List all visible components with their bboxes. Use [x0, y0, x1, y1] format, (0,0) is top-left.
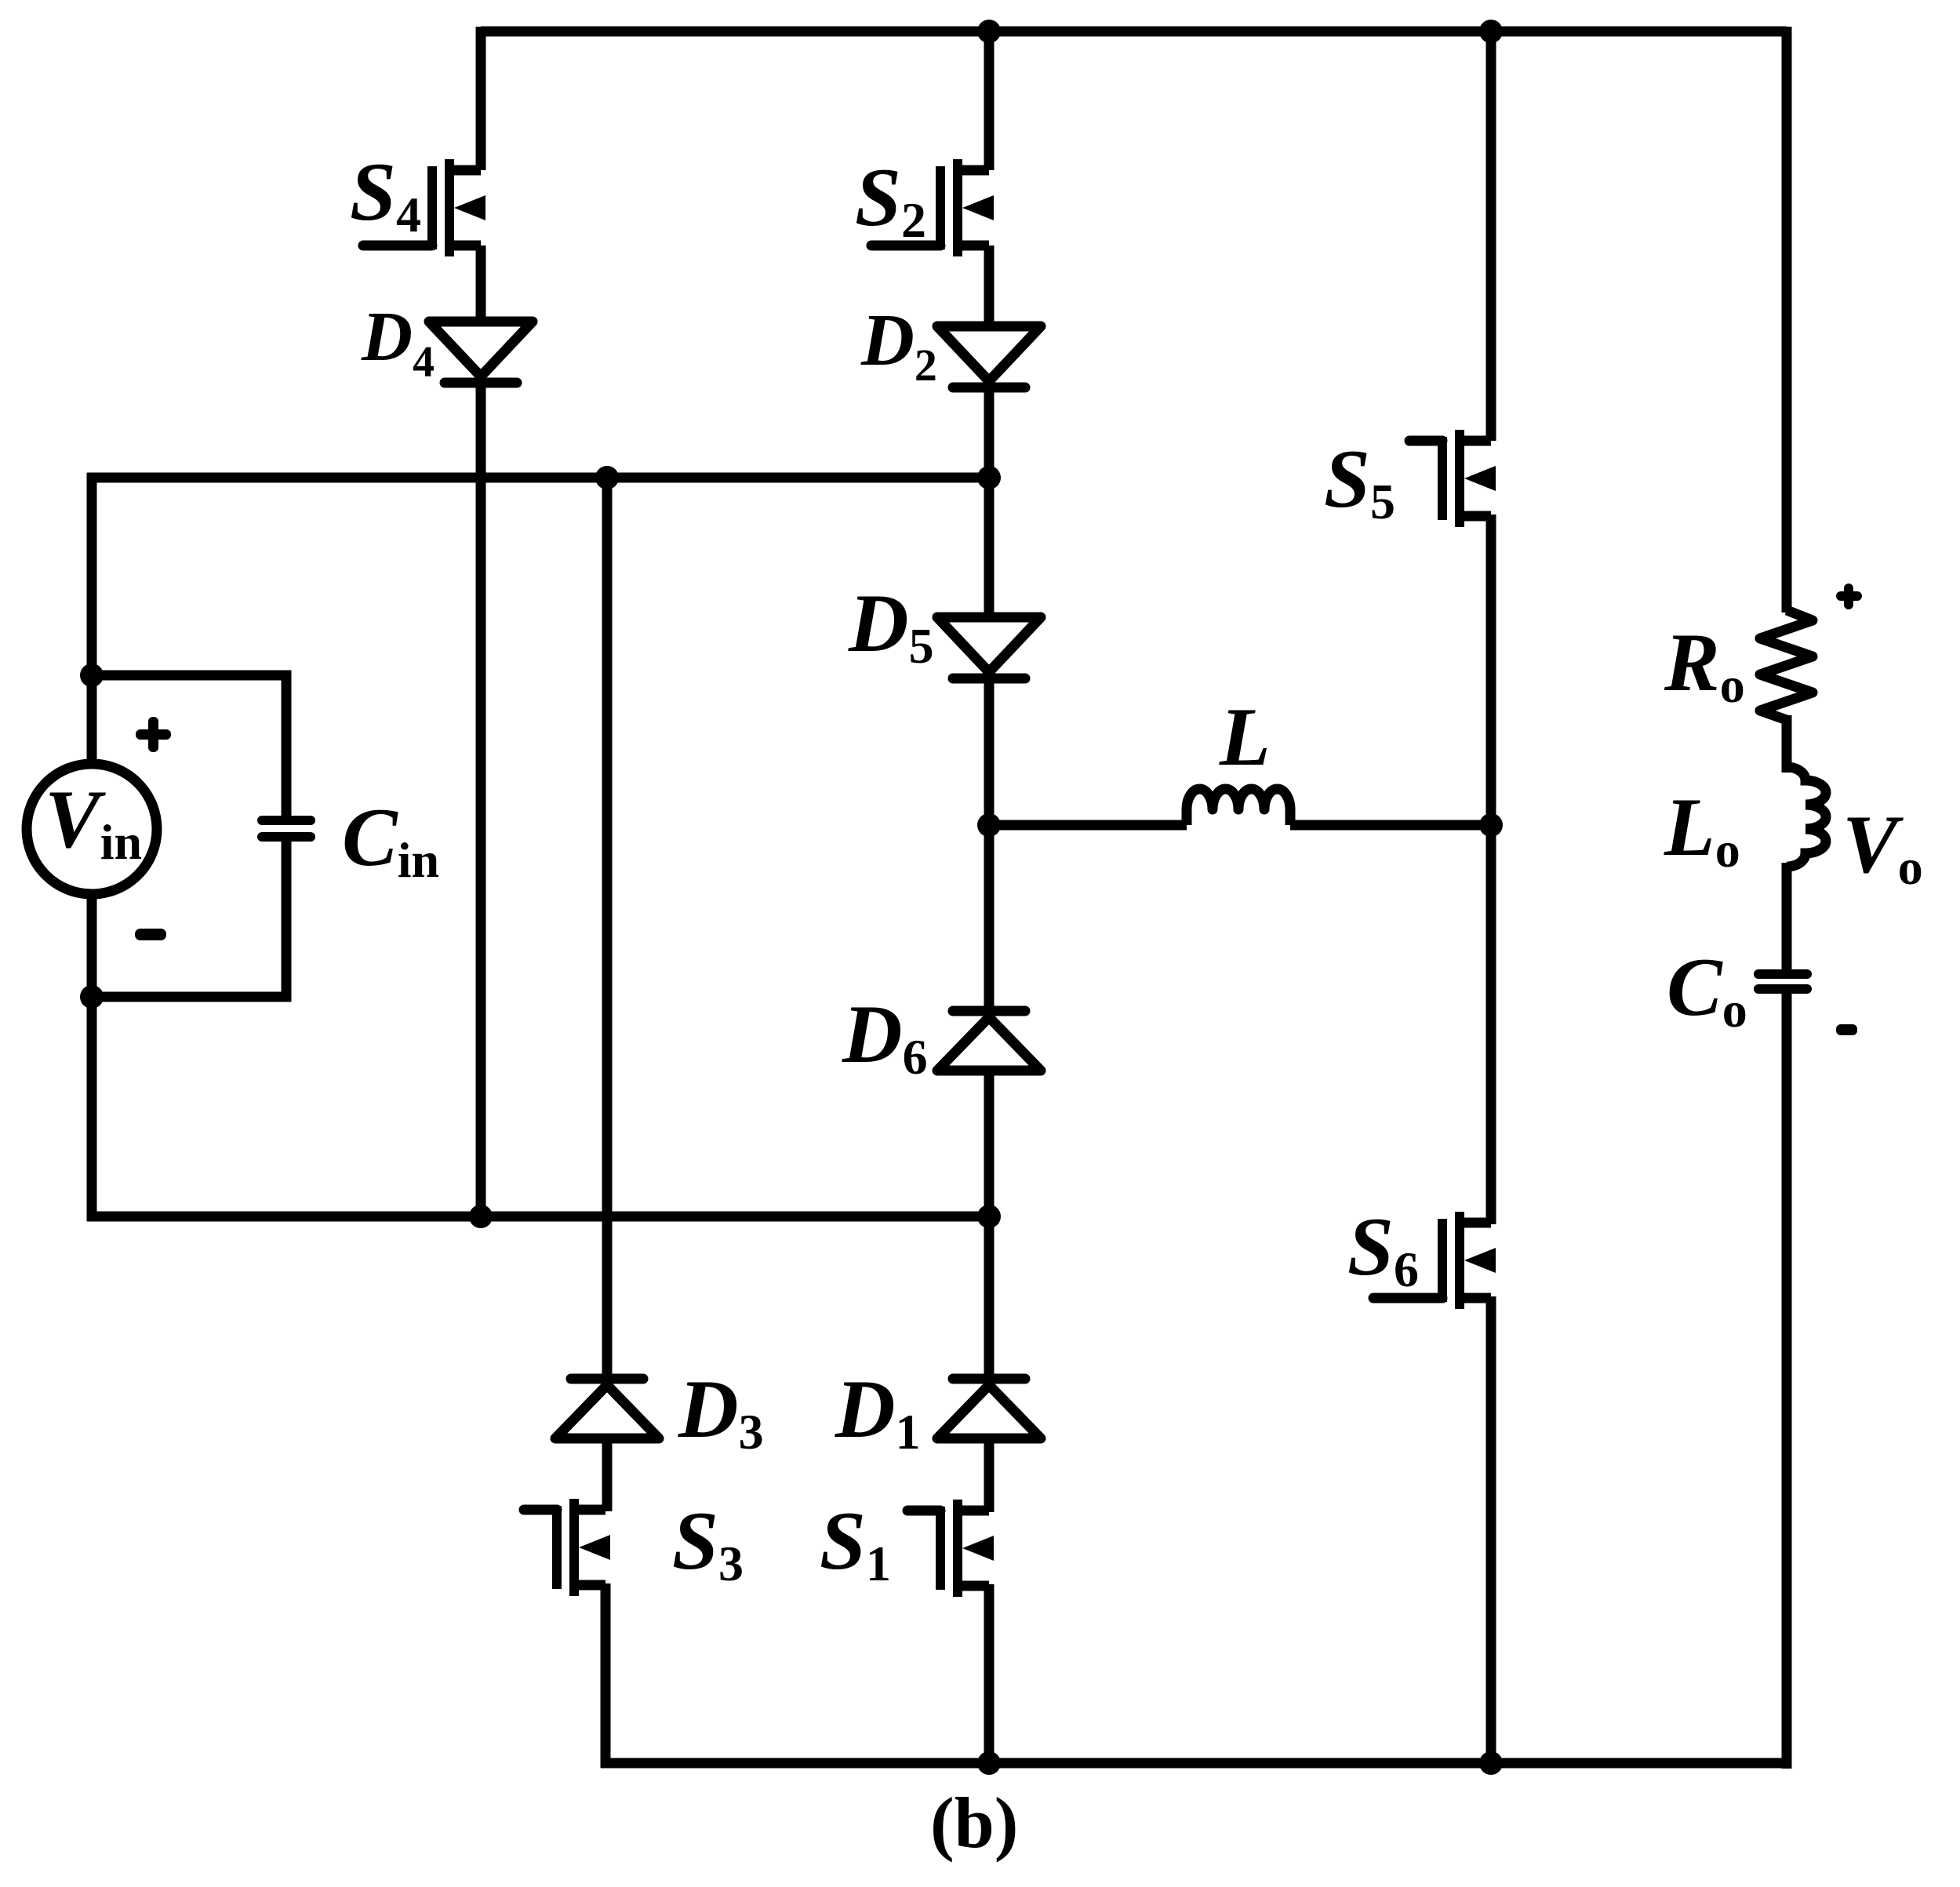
wire D5 cathode to inductor node: [984, 664, 995, 825]
resistor Ro zigzag: [1760, 610, 1813, 720]
diode D5 (pointing down): [937, 617, 1041, 678]
wire S5 source to S6 drain: [1486, 514, 1496, 1224]
inductor L coil: [1187, 789, 1290, 825]
wire left rail upper (mid rail to Vin+): [87, 473, 97, 769]
junction Vin+ / Cin branch: [80, 664, 104, 687]
svg-text:L: L: [1219, 691, 1271, 783]
wire inductor node to D6 cathode: [984, 825, 995, 1016]
wire mid rail node to D5 anode: [984, 478, 995, 619]
wire D4 cathode down to input minus rail: [476, 369, 486, 1216]
junction top rail / S5 column: [1479, 20, 1503, 43]
diode D4 (pointing down): [429, 322, 533, 383]
transistor S6: [1373, 1212, 1496, 1309]
junction bottom rail / S1 source: [977, 1751, 1001, 1775]
junction top rail / S2 column: [977, 20, 1001, 43]
wire top rail: [481, 27, 1787, 37]
wire D2 cathode to mid rail: [984, 373, 995, 478]
transistor S2: [871, 159, 994, 256]
diode D6 (pointing up): [937, 1011, 1041, 1071]
wire S6 source to bottom rail: [1486, 1296, 1496, 1763]
wire S4 drain from top rail: [476, 27, 486, 170]
wire S2 source to D2 anode: [984, 245, 995, 328]
wire inductor L left lead: [989, 820, 1187, 831]
wire D1 anode to S1 drain: [984, 1434, 995, 1512]
transistor S5: [1409, 430, 1496, 527]
wire Ro to Lo lead: [1782, 715, 1792, 773]
inductor Lo coil: [1787, 767, 1826, 867]
capacitor Cin plates: [257, 816, 315, 842]
junction bottom rail / S6 source: [1479, 1751, 1503, 1775]
svg-text:(b): (b): [930, 1783, 1018, 1863]
wire S3 source to bottom rail corner: [601, 1583, 611, 1768]
diode D2 (pointing down): [937, 326, 1041, 387]
junction input minus rail / D4 cathode: [469, 1205, 493, 1228]
wire S2 drain from top rail: [984, 27, 995, 170]
junction mid rail / D2-D5 node: [977, 466, 1001, 489]
wire S5 drain from top rail: [1486, 27, 1496, 441]
minus sign of Vo: [1836, 1024, 1857, 1035]
wire mid rail (Vin+ to D2/D5 node): [87, 473, 989, 483]
junction mid rail / D3 column: [595, 466, 619, 489]
wire right rail upper (top rail to Ro): [1782, 27, 1792, 613]
wire input minus rail: [87, 1212, 989, 1222]
wire S1 source to bottom rail: [984, 1584, 995, 1763]
wire D3 anode to S3 drain: [602, 1434, 613, 1511]
wire bottom rail: [601, 1758, 1787, 1769]
wire D3 column from mid rail: [602, 478, 613, 1383]
junction inductor node at S5/S6 column: [1479, 813, 1503, 837]
wire Lo to Co lead: [1782, 863, 1792, 971]
wire left rail lower (Vin- down): [87, 890, 97, 1221]
wire S4 source to D4 anode: [476, 245, 486, 323]
transistor S3: [524, 1499, 610, 1596]
wire inductor L right lead: [1290, 820, 1491, 831]
diode D3 (pointing up): [555, 1379, 659, 1438]
wire Cin branch bottom: [92, 837, 286, 997]
diode D1 (pointing up): [937, 1379, 1041, 1438]
voltage source Vin circle: [27, 764, 157, 894]
capacitor Co plates: [1754, 969, 1812, 994]
junction inductor node at D5/D6 column: [977, 813, 1001, 837]
plus sign of Vo: [1836, 584, 1862, 609]
wire D6 anode to input minus rail: [984, 1066, 995, 1216]
plus sign of Vin: [136, 717, 171, 752]
minus sign of Vin: [135, 929, 166, 940]
transistor S4: [363, 159, 485, 256]
junction Vin- / Cin branch: [80, 985, 104, 1009]
junction input minus rail / D6 column: [977, 1205, 1001, 1228]
transistor S1: [907, 1500, 994, 1597]
wire Co to bottom rail: [1782, 993, 1792, 1769]
wire input minus rail to D1 cathode: [984, 1216, 995, 1383]
wire Cin branch top: [92, 675, 286, 820]
